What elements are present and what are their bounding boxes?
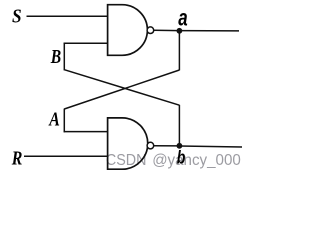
wire B input horizontal [64, 42, 108, 44]
svg-text:A: A [48, 109, 60, 131]
node a junction dot [177, 28, 183, 34]
wire bottom gate output [154, 145, 179, 147]
node b junction dot [177, 143, 183, 149]
svg-text:R: R [11, 148, 22, 170]
wire a-to-A diagonal [64, 70, 179, 109]
wire B-to-b diagonal [64, 70, 179, 106]
wire B vertical [63, 43, 65, 71]
nand gate U1 (top) body [108, 5, 148, 56]
wire R input [24, 155, 108, 157]
svg-text:@yancy_000: @yancy_000 [152, 152, 241, 169]
svg-text:S: S [12, 6, 22, 28]
wire top right output [179, 30, 239, 32]
svg-text:a: a [178, 5, 188, 31]
wire b vertical [178, 105, 180, 146]
wire A input horizontal [64, 131, 108, 133]
wire a vertical [178, 31, 180, 71]
nand gate U1 output bubble [147, 27, 154, 34]
wire top gate output [154, 29, 179, 31]
nand gate U2 (bottom) body [108, 118, 148, 169]
svg-text:b: b [177, 147, 186, 168]
svg-text:B: B [50, 46, 61, 68]
wire S input [27, 15, 108, 17]
wire bottom right output [179, 146, 242, 147]
nand gate U2 output bubble [147, 142, 154, 149]
wire A vertical [63, 109, 65, 133]
